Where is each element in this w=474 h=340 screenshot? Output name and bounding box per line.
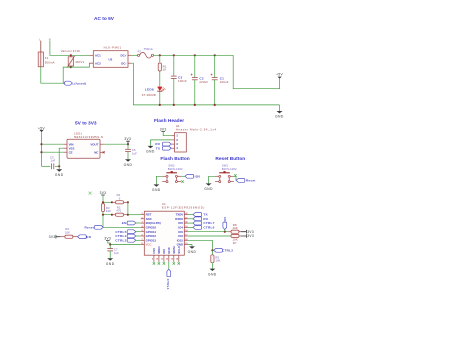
no-connect X on NC pin bbox=[103, 151, 105, 153]
net label TX (ESP) bbox=[193, 213, 209, 217]
svg-text:BJFS-1002: BJFS-1002 bbox=[168, 167, 183, 171]
wire R2 to RST pin bbox=[128, 214, 141, 216]
junction RST row right bbox=[127, 214, 129, 216]
svg-text:C5: C5 bbox=[50, 155, 54, 159]
regulator LDO1 ME6211C33M5G-N bbox=[63, 132, 104, 159]
ground flag LDO output bbox=[124, 159, 133, 167]
net label CTRL2 bbox=[214, 248, 234, 252]
power flag 3V3 (VCC) bbox=[104, 237, 111, 245]
origin marker cross bbox=[89, 192, 92, 195]
ground flag C7 bbox=[106, 258, 115, 266]
section title: Reset Button bbox=[215, 156, 245, 162]
svg-text:CE: CE bbox=[69, 150, 73, 154]
svg-text:IO0: IO0 bbox=[195, 174, 201, 178]
wire TXD0 stub bbox=[188, 214, 193, 216]
wire node A row bbox=[103, 201, 112, 203]
junction at varistor bottom bbox=[70, 66, 72, 68]
svg-text:3V3: 3V3 bbox=[160, 128, 167, 132]
svg-text:3V3: 3V3 bbox=[104, 237, 111, 241]
wire varistor bottom to AC2 bbox=[71, 63, 94, 67]
ground flag LDO input bbox=[55, 166, 64, 177]
power flag 3V3 (R7) bbox=[241, 234, 254, 238]
power flag +5V bbox=[276, 73, 283, 79]
resistor R3 10K bbox=[101, 204, 111, 214]
svg-text:1uF: 1uF bbox=[132, 152, 137, 156]
svg-text:220uF: 220uF bbox=[220, 80, 229, 84]
svg-text:LED8: LED8 bbox=[145, 87, 154, 91]
net label Reset (reset button) bbox=[236, 179, 255, 183]
junction bottom rail at LED bbox=[159, 104, 161, 106]
ground flag flash button bbox=[152, 184, 161, 192]
junction top rail at C1 bbox=[214, 54, 216, 56]
wire SW2 to IO0 bbox=[181, 175, 185, 177]
wire LED8 to bottom rail bbox=[159, 91, 161, 105]
wire +5V top rail bbox=[154, 54, 234, 56]
wire 3V3 to R3/R4 node bbox=[102, 195, 104, 202]
junction IO15/CTRL2/R9 bbox=[211, 249, 213, 251]
wire L to fuse F1 bbox=[40, 41, 42, 52]
svg-text:KT-0603R: KT-0603R bbox=[142, 93, 156, 97]
svg-text:+5V: +5V bbox=[38, 126, 45, 130]
no-connect X reset button bbox=[234, 174, 236, 176]
wire IO2 to R7 bbox=[188, 235, 231, 237]
svg-text:Flash Header: Flash Header bbox=[154, 118, 184, 124]
net label CTRL5 bbox=[115, 230, 136, 234]
capacitor C6 bbox=[125, 144, 137, 159]
fuse F2 750mA bbox=[138, 47, 154, 58]
svg-text:R7: R7 bbox=[233, 241, 237, 245]
net label TX (header pin4) bbox=[156, 146, 171, 150]
wire Reset to GPIO16 bbox=[103, 226, 141, 228]
svg-text:VOUT: VOUT bbox=[90, 142, 98, 146]
ground flag ESP bbox=[188, 246, 197, 254]
wire IO10 to CTRL1 bbox=[168, 262, 170, 269]
junction bottom rail at C1 bbox=[214, 104, 216, 106]
wire R1 to LED8 bbox=[159, 71, 161, 87]
junction VOUT/C6 bbox=[127, 143, 129, 145]
header H1 Header Male-2.54_1x4 bbox=[171, 124, 216, 152]
section title: 5V to 3V3 bbox=[75, 121, 97, 127]
junction node A right bbox=[127, 201, 129, 203]
capacitor C2 (polarized) bbox=[191, 55, 209, 105]
wire IO0 to R8 bbox=[188, 231, 228, 233]
wire IO15 down to CTRL2 node bbox=[188, 240, 213, 250]
junction top rail at R1 bbox=[159, 54, 161, 56]
wire EN to pin bbox=[136, 222, 141, 224]
svg-text:AC1: AC1 bbox=[95, 53, 101, 57]
net label RX (header pin3) bbox=[155, 142, 171, 146]
svg-text:Header Male-2.54_1x4: Header Male-2.54_1x4 bbox=[176, 128, 217, 132]
svg-text:VCC: VCC bbox=[146, 243, 152, 247]
wire top rail to +5V flag bbox=[233, 55, 279, 88]
ground flag reset button bbox=[204, 183, 213, 191]
net label CTRL6 bbox=[193, 226, 215, 230]
net label IO0 (flash button) bbox=[185, 174, 200, 178]
svg-text:750mA: 750mA bbox=[144, 47, 153, 51]
wire CTRL5 to GPIO14 bbox=[136, 231, 141, 233]
svg-text:1K: 1K bbox=[163, 68, 167, 72]
svg-text:CTRL1: CTRL1 bbox=[166, 279, 170, 290]
wire to CE bbox=[42, 151, 64, 153]
power flag 3V3 (RST pullup) bbox=[100, 191, 107, 195]
junction top rail at C3 bbox=[173, 54, 175, 56]
svg-text:EN: EN bbox=[86, 235, 91, 239]
wire N to AC1 bbox=[50, 41, 90, 56]
net label EN (ESP) bbox=[122, 221, 136, 225]
wire SW2 to ground bbox=[156, 176, 162, 184]
capacitor C7 bbox=[107, 245, 119, 259]
svg-text:+5V: +5V bbox=[276, 73, 283, 77]
svg-text:SW2: SW2 bbox=[168, 164, 175, 168]
wire IO4 stub bbox=[188, 226, 193, 228]
resistor R7 10K (IO2 pullup) bbox=[231, 234, 241, 245]
pin N (AC neutral input) bbox=[49, 39, 51, 42]
junction bottom rail at C3 bbox=[173, 104, 175, 106]
svg-text:100nF: 100nF bbox=[178, 79, 187, 83]
svg-text:3V3: 3V3 bbox=[100, 191, 107, 195]
power flag 3V3 (header) bbox=[160, 128, 167, 132]
wire header pin2 to ground bbox=[151, 140, 172, 146]
no-connect X CS0 bbox=[153, 262, 155, 264]
net label CTRL3 bbox=[115, 238, 136, 242]
svg-text:F1: F1 bbox=[45, 56, 49, 60]
net label CTRL4 bbox=[115, 234, 136, 238]
svg-text:C7: C7 bbox=[114, 248, 118, 252]
junction at varistor top bbox=[70, 54, 72, 56]
power flag 3V3 (LDO out) bbox=[124, 137, 131, 144]
svg-text:SCLK: SCLK bbox=[177, 245, 181, 254]
no-connect X IO9 bbox=[163, 262, 165, 264]
no-connect X MISO bbox=[158, 262, 160, 264]
resistor R1 bbox=[158, 55, 167, 71]
ground flag R9 bbox=[208, 269, 217, 277]
no-connect X MOSI bbox=[173, 262, 175, 264]
net label CTRL1 (vertical) bbox=[166, 269, 171, 290]
capacitor C3 bbox=[171, 55, 187, 105]
junction bottom rail at C2 bbox=[194, 104, 196, 106]
svg-text:10K: 10K bbox=[232, 226, 238, 230]
junction VIN row bbox=[40, 143, 42, 145]
junction CE row bbox=[40, 151, 42, 153]
svg-text:Reset: Reset bbox=[246, 179, 256, 183]
junction node A mid bbox=[111, 201, 113, 203]
svg-text:MOV1: MOV1 bbox=[76, 60, 85, 64]
svg-text:ME6211C33M5G-N: ME6211C33M5G-N bbox=[74, 135, 103, 139]
svg-text:C6: C6 bbox=[132, 148, 136, 152]
svg-text:500mA: 500mA bbox=[45, 61, 55, 65]
svg-text:Reset Button: Reset Button bbox=[215, 156, 245, 162]
svg-text:470: 470 bbox=[116, 209, 121, 213]
svg-text:220uF: 220uF bbox=[199, 80, 208, 84]
net label L(fused) bbox=[63, 81, 86, 85]
svg-text:Varistor 471K: Varistor 471K bbox=[61, 49, 80, 53]
resistor R4 0ohm bbox=[112, 193, 128, 204]
svg-text:10K: 10K bbox=[106, 209, 111, 213]
junction top rail at C2 bbox=[194, 54, 196, 56]
svg-text:MISO: MISO bbox=[157, 246, 161, 254]
capacitor C5 (in ground row) bbox=[42, 155, 60, 169]
power flag 3V3 (R8) bbox=[241, 230, 254, 234]
svg-text:IO9: IO9 bbox=[162, 249, 166, 254]
wire IO5 stub bbox=[188, 222, 193, 224]
svg-text:3V3: 3V3 bbox=[49, 235, 56, 239]
junction RST row left bbox=[102, 214, 104, 216]
svg-text:IO0: IO0 bbox=[223, 217, 227, 223]
net label EN (left) bbox=[78, 235, 92, 239]
svg-text:Flash Button: Flash Button bbox=[160, 156, 189, 162]
svg-text:TX: TX bbox=[156, 146, 161, 150]
no-connect X SCLK bbox=[178, 262, 180, 264]
svg-text:U2: U2 bbox=[109, 58, 113, 62]
svg-text:CTRL3: CTRL3 bbox=[115, 238, 126, 242]
junction IO0 bbox=[224, 231, 226, 233]
wire to VIN bbox=[42, 143, 64, 145]
svg-text:DC-: DC- bbox=[121, 61, 126, 65]
wire R4 down to RST row bbox=[127, 202, 129, 214]
power flag +5V (LDO input) bbox=[38, 126, 45, 132]
net label IO0 (vertical, ESP) bbox=[223, 217, 227, 232]
wire fuse F1 to node L(fused) bbox=[41, 67, 63, 83]
module U1 ESP-12F(ESP8266MOD) bbox=[141, 202, 205, 262]
wire Reset node down bbox=[102, 215, 104, 228]
resistor R9 10K (IO15 pulldown) bbox=[211, 250, 221, 268]
net label Reset (ESP) bbox=[85, 225, 104, 229]
wire DC- to bottom rail bbox=[132, 63, 160, 105]
varistor MOV1 bbox=[61, 49, 85, 67]
switch SW1 BJFS-1002 bbox=[215, 164, 237, 183]
svg-text:SW1: SW1 bbox=[222, 164, 229, 168]
svg-text:AC to 5V: AC to 5V bbox=[94, 16, 115, 22]
svg-text:BJFS-1002: BJFS-1002 bbox=[222, 167, 237, 171]
pin L (AC live input) bbox=[39, 39, 41, 42]
resistor R2 470 bbox=[112, 205, 128, 216]
wire VOUT to 3V3 bbox=[104, 143, 128, 145]
ground flag header bbox=[146, 146, 155, 154]
svg-text:5V to 3V3: 5V to 3V3 bbox=[75, 121, 97, 127]
svg-text:Reset: Reset bbox=[85, 225, 95, 229]
switch SW2 BJFS-1002 bbox=[162, 164, 183, 183]
svg-text:CS0: CS0 bbox=[152, 248, 156, 254]
power flag 3V3 (EN pullup) bbox=[49, 235, 61, 239]
svg-text:AC2: AC2 bbox=[95, 61, 101, 65]
wire DC+ to fuse F2 bbox=[132, 54, 138, 56]
svg-text:IO10: IO10 bbox=[167, 247, 171, 254]
wire +5V down bbox=[41, 132, 43, 166]
svg-text:L(fused): L(fused) bbox=[72, 81, 86, 85]
ground flag AC section bbox=[275, 105, 284, 119]
svg-text:10K: 10K bbox=[65, 230, 70, 234]
svg-text:MOSI: MOSI bbox=[172, 246, 176, 254]
section title: AC to 5V bbox=[94, 16, 115, 22]
section title: Flash Header bbox=[154, 118, 184, 124]
svg-text:HLK-PM01: HLK-PM01 bbox=[104, 46, 122, 50]
no-connect X flash button bbox=[181, 180, 183, 182]
wire varistor bottom to L(fused) row bbox=[63, 67, 71, 83]
wire bottom rail bbox=[160, 104, 280, 106]
wire GND pin to ground bbox=[188, 245, 192, 247]
svg-text:DC+: DC+ bbox=[121, 53, 127, 57]
junction VCC/C7 bbox=[109, 243, 111, 245]
wire RXD0 stub bbox=[188, 218, 193, 220]
svg-text:CTRL2: CTRL2 bbox=[222, 248, 233, 252]
capacitor C1 (polarized) bbox=[211, 55, 229, 105]
svg-text:3V3: 3V3 bbox=[247, 234, 254, 238]
svg-text:10K: 10K bbox=[215, 259, 220, 263]
svg-text:1uF: 1uF bbox=[50, 159, 55, 163]
svg-text:ESP-12F(ESP8266MOD): ESP-12F(ESP8266MOD) bbox=[162, 206, 205, 210]
wire 3V3 to header pin1 bbox=[163, 132, 171, 136]
section title: Flash Button bbox=[160, 156, 189, 162]
resistor R6 10K (EN pullup) bbox=[60, 227, 77, 238]
LED LED8 KT-0603R bbox=[142, 87, 166, 97]
wire SW1 to ground bbox=[209, 176, 216, 183]
fuse F1 bbox=[38, 52, 54, 67]
wire CTRL3 to GPIO13 bbox=[136, 239, 141, 241]
junction RST row mid bbox=[111, 214, 113, 216]
resistor R8 10K (IO0 pullup) bbox=[228, 223, 241, 233]
svg-text:F2: F2 bbox=[138, 49, 142, 53]
svg-text:EN: EN bbox=[122, 221, 127, 225]
junction node A left bbox=[102, 201, 104, 203]
net label RX (ESP) bbox=[193, 217, 209, 221]
wire SW1 to Reset label bbox=[234, 176, 236, 180]
svg-text:CTRL6: CTRL6 bbox=[203, 226, 214, 230]
wire RST row bbox=[103, 212, 112, 215]
wire VSS to ground row bbox=[59, 148, 63, 166]
wire VCC row bbox=[110, 244, 141, 246]
svg-text:3V3: 3V3 bbox=[124, 137, 131, 141]
AC-DC module U2 HLK-PM01 bbox=[89, 46, 131, 68]
wire CTRL4 to GPIO12 bbox=[136, 235, 141, 237]
net label CTRL7 bbox=[193, 221, 215, 225]
junction C5/VSS/GND bbox=[58, 165, 60, 167]
svg-text:1uF: 1uF bbox=[114, 251, 119, 255]
